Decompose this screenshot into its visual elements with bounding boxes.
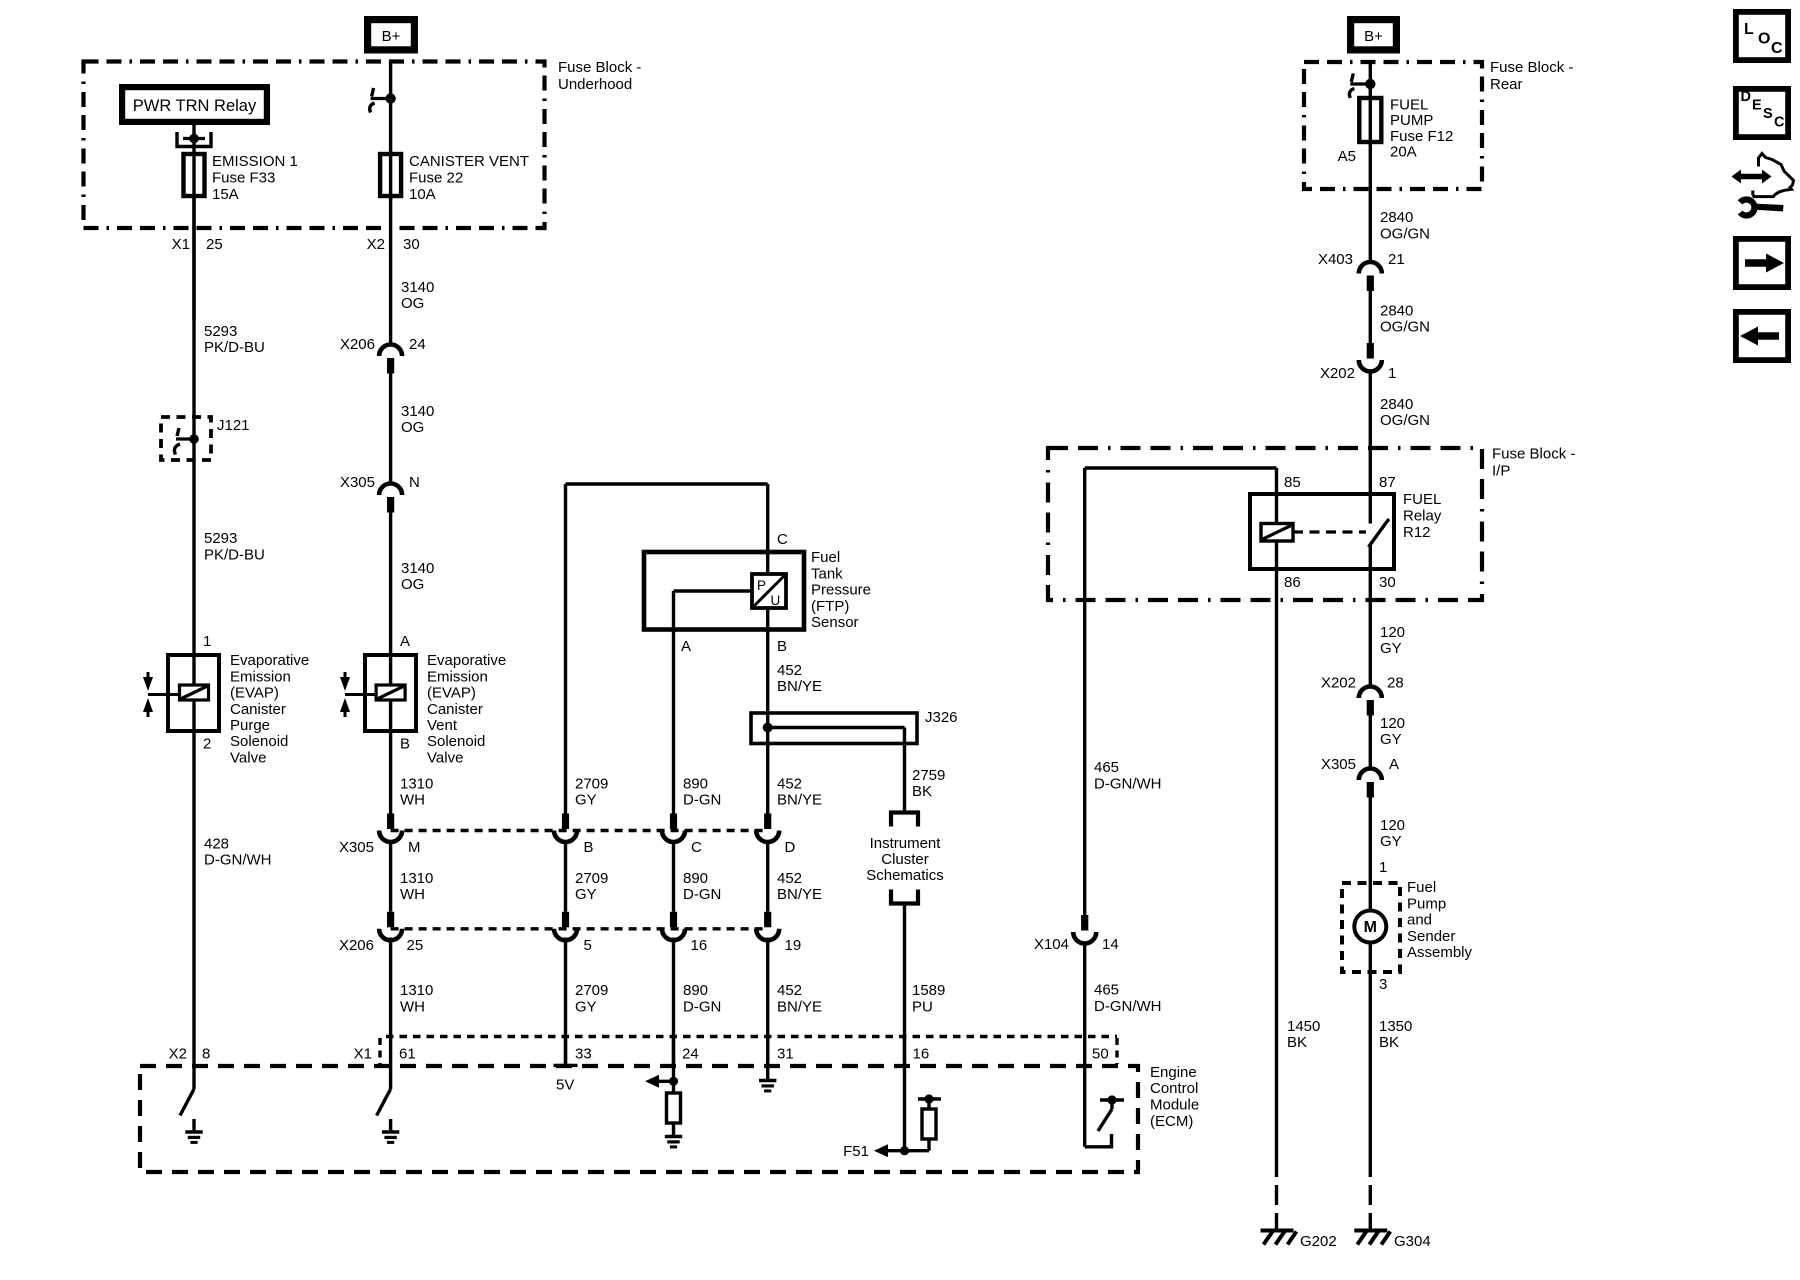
svg-text:Fuse Block -: Fuse Block - xyxy=(1490,59,1573,76)
ground G304 xyxy=(1354,1229,1387,1233)
wire 120 GY (2) xyxy=(1369,716,1372,771)
relay coil xyxy=(1261,524,1293,542)
wire 1350 BK xyxy=(1369,972,1372,1177)
ground G202 xyxy=(1261,1229,1294,1233)
svg-text:D-GN: D-GN xyxy=(683,792,721,809)
fuel tank pressure sensor box xyxy=(644,552,804,630)
wire 2709 GY top run (5V reference) xyxy=(566,482,768,485)
fuse holder clip (canister vent) xyxy=(371,97,391,100)
svg-text:G304: G304 xyxy=(1394,1233,1431,1250)
wire 5293 PK/D-BU upper segment xyxy=(192,196,195,655)
svg-text:BN/YE: BN/YE xyxy=(777,792,822,809)
svg-text:D: D xyxy=(785,839,796,856)
svg-text:Fuel: Fuel xyxy=(1407,879,1436,896)
svg-text:L: L xyxy=(1744,21,1754,38)
svg-text:Schematics: Schematics xyxy=(866,867,944,884)
in-line connector X202 pin 28 xyxy=(1359,687,1382,699)
svg-text:OG/GN: OG/GN xyxy=(1380,226,1430,243)
svg-text:OG/GN: OG/GN xyxy=(1380,319,1430,336)
off-page bracket to instrument cluster (top) xyxy=(891,813,918,827)
svg-text:Control: Control xyxy=(1150,1080,1198,1097)
in-line connector X403 pin 21 xyxy=(1359,262,1382,274)
svg-text:B: B xyxy=(400,736,410,753)
svg-text:U: U xyxy=(771,593,781,608)
svg-text:OG: OG xyxy=(401,295,424,312)
svg-text:PWR TRN Relay: PWR TRN Relay xyxy=(133,97,257,115)
svg-text:Fuse 22: Fuse 22 xyxy=(409,170,463,187)
svg-text:1310: 1310 xyxy=(400,870,433,887)
svg-text:28: 28 xyxy=(1387,675,1404,692)
svg-text:BN/YE: BN/YE xyxy=(777,678,822,695)
svg-text:OG: OG xyxy=(401,419,424,436)
svg-text:452: 452 xyxy=(777,982,802,999)
svg-text:452: 452 xyxy=(777,662,802,679)
svg-text:Tank: Tank xyxy=(811,565,843,582)
svg-text:BK: BK xyxy=(1379,1034,1399,1051)
svg-text:31: 31 xyxy=(777,1046,794,1063)
svg-text:3140: 3140 xyxy=(401,560,434,577)
wire relay 86 to ground G202 (1450 BK) xyxy=(1275,541,1278,1177)
svg-text:A: A xyxy=(1389,756,1399,773)
wire 3140 OG (2) xyxy=(389,374,392,486)
forward arrow button xyxy=(1733,236,1791,290)
svg-text:WH: WH xyxy=(400,792,425,809)
wires from X206 row to ECM xyxy=(389,938,392,1067)
splice J121 dashed box xyxy=(161,417,211,460)
svg-text:M: M xyxy=(1364,919,1377,936)
fuse F33 EMISSION 1 15A xyxy=(184,154,205,196)
svg-text:87: 87 xyxy=(1379,474,1396,491)
connector X206 row pin at x=390.6 xyxy=(387,912,394,928)
svg-text:890: 890 xyxy=(683,870,708,887)
svg-text:D: D xyxy=(1741,89,1751,105)
component view icon (outline with double arrow) xyxy=(1753,154,1794,197)
svg-text:X104: X104 xyxy=(1034,936,1069,953)
svg-text:465: 465 xyxy=(1094,982,1119,999)
svg-text:30: 30 xyxy=(1379,574,1396,591)
svg-text:Assembly: Assembly xyxy=(1407,944,1473,961)
svg-text:Cluster: Cluster xyxy=(881,851,929,868)
svg-text:5V: 5V xyxy=(556,1077,574,1094)
svg-text:GY: GY xyxy=(1380,731,1402,748)
svg-text:X202: X202 xyxy=(1320,365,1355,382)
DESC button xyxy=(1733,86,1791,140)
svg-text:C: C xyxy=(777,531,788,548)
svg-text:2709: 2709 xyxy=(575,982,608,999)
svg-text:24: 24 xyxy=(409,336,426,353)
wire 2840 OG/GN (1) xyxy=(1369,142,1372,264)
wrench icon xyxy=(1752,204,1784,212)
svg-text:GY: GY xyxy=(575,792,597,809)
svg-text:Vent: Vent xyxy=(427,717,458,734)
svg-text:F51: F51 xyxy=(843,1143,869,1160)
svg-text:Solenoid: Solenoid xyxy=(427,733,485,750)
svg-text:X206: X206 xyxy=(339,937,374,954)
LOC button xyxy=(1733,9,1791,63)
svg-text:C: C xyxy=(691,839,702,856)
svg-text:GY: GY xyxy=(575,999,597,1016)
ground lead dashes G202 xyxy=(1275,1185,1278,1231)
fuse block - I/P dashed box xyxy=(1048,448,1482,600)
fuel relay R12 box xyxy=(1250,494,1394,569)
EVAP canister purge solenoid valve xyxy=(168,655,219,731)
connector X206 row pin at x=673.5 xyxy=(670,912,677,928)
svg-text:Purge: Purge xyxy=(230,717,270,734)
svg-text:Fuse F33: Fuse F33 xyxy=(212,170,275,187)
svg-text:PU: PU xyxy=(912,999,933,1016)
svg-text:Canister: Canister xyxy=(427,701,483,718)
svg-text:X1: X1 xyxy=(172,236,190,253)
svg-text:G202: G202 xyxy=(1300,1233,1337,1250)
svg-text:D-GN/WH: D-GN/WH xyxy=(1094,776,1162,793)
svg-text:A: A xyxy=(681,638,691,655)
svg-text:Sensor: Sensor xyxy=(811,614,859,631)
svg-text:A5: A5 xyxy=(1338,148,1356,165)
svg-text:1310: 1310 xyxy=(400,982,433,999)
svg-text:452: 452 xyxy=(777,870,802,887)
svg-text:Valve: Valve xyxy=(427,749,463,766)
wire B+ down to fuse 22 xyxy=(389,61,392,200)
svg-text:X2: X2 xyxy=(367,236,385,253)
svg-text:Pressure: Pressure xyxy=(811,582,871,599)
svg-text:(ECM): (ECM) xyxy=(1150,1113,1193,1130)
ECM pin 16 F51 node with resistor xyxy=(903,1037,906,1151)
svg-text:1589: 1589 xyxy=(912,982,945,999)
wire B+ to fuel pump fuse xyxy=(1369,62,1372,145)
svg-text:3140: 3140 xyxy=(401,279,434,296)
svg-text:452: 452 xyxy=(777,776,802,793)
svg-text:A: A xyxy=(400,633,410,650)
svg-text:2759: 2759 xyxy=(912,767,945,784)
svg-text:428: 428 xyxy=(204,836,229,853)
svg-text:I/P: I/P xyxy=(1492,463,1510,480)
svg-text:X305: X305 xyxy=(339,839,374,856)
svg-text:D-GN/WH: D-GN/WH xyxy=(1094,998,1162,1015)
fuse holder clip (fuel pump) xyxy=(1350,82,1370,85)
svg-text:1310: 1310 xyxy=(400,776,433,793)
svg-text:2709: 2709 xyxy=(575,870,608,887)
in-line connector X305 pin A xyxy=(1359,769,1382,781)
svg-text:16: 16 xyxy=(691,937,708,954)
svg-text:Module: Module xyxy=(1150,1097,1199,1114)
fuse block - underhood (dashed box) xyxy=(84,62,545,229)
svg-text:B+: B+ xyxy=(1364,28,1383,45)
svg-text:CANISTER VENT: CANISTER VENT xyxy=(409,153,529,170)
svg-text:21: 21 xyxy=(1388,251,1405,268)
wire through J326 with junction xyxy=(766,713,769,814)
svg-text:Instrument: Instrument xyxy=(870,835,942,852)
svg-text:B+: B+ xyxy=(382,28,401,45)
svg-text:GY: GY xyxy=(575,886,597,903)
wire 2840 OG/GN (3) xyxy=(1369,370,1372,494)
svg-text:X1: X1 xyxy=(354,1046,372,1063)
svg-text:Underhood: Underhood xyxy=(558,76,632,93)
ground lead dashes G304 xyxy=(1369,1185,1372,1231)
svg-text:GY: GY xyxy=(1380,640,1402,657)
svg-text:33: 33 xyxy=(575,1046,592,1063)
svg-text:S: S xyxy=(1763,106,1773,122)
ECM internal switch to ground (pin X2-8) xyxy=(192,1066,195,1089)
svg-text:WH: WH xyxy=(400,886,425,903)
svg-text:1: 1 xyxy=(203,633,211,650)
ECM internal driver switch (pin 50) xyxy=(1083,1037,1086,1147)
svg-text:3: 3 xyxy=(1379,976,1387,993)
svg-text:61: 61 xyxy=(399,1046,416,1063)
connector X305 row pin at x=767.7 xyxy=(764,814,771,830)
in-line connector X206 pin 24 xyxy=(379,345,402,357)
ECM ground (pin 31) xyxy=(766,1037,769,1081)
svg-text:5: 5 xyxy=(584,937,592,954)
svg-text:R12: R12 xyxy=(1403,524,1431,541)
wires between X305 and X206 rows xyxy=(389,841,392,912)
fuse F12 FUEL PUMP 20A xyxy=(1359,98,1381,142)
svg-text:M: M xyxy=(408,839,421,856)
svg-text:N: N xyxy=(409,474,420,491)
wire to FTP sensor pin C xyxy=(766,484,769,574)
wire fuse 22 to X2 pin 30 xyxy=(389,196,392,346)
svg-text:FUEL: FUEL xyxy=(1403,491,1441,508)
svg-text:X202: X202 xyxy=(1321,675,1356,692)
fuse holder bracket (EMISSION 1) xyxy=(177,132,211,147)
svg-text:14: 14 xyxy=(1102,936,1119,953)
svg-text:Evaporative: Evaporative xyxy=(230,652,309,669)
svg-text:1: 1 xyxy=(1388,365,1396,382)
svg-text:P: P xyxy=(757,578,766,593)
ECM internal switch to ground (pin 61) xyxy=(389,1066,392,1089)
connector X305 row pin at x=673.5 xyxy=(670,814,677,830)
svg-text:Emission: Emission xyxy=(427,668,488,685)
svg-text:Valve: Valve xyxy=(230,749,266,766)
wire relay 85 feed 465 D-GN/WH xyxy=(1083,600,1086,915)
svg-text:86: 86 xyxy=(1284,574,1301,591)
in-line connector X305 row dashed link xyxy=(391,829,768,832)
svg-text:20A: 20A xyxy=(1390,144,1417,161)
svg-text:2840: 2840 xyxy=(1380,209,1413,226)
svg-text:EMISSION 1: EMISSION 1 xyxy=(212,153,298,170)
svg-text:1350: 1350 xyxy=(1379,1018,1412,1035)
wire 120 GY (1) xyxy=(1369,600,1372,688)
ECM connector X1 dotted strip xyxy=(386,1035,1117,1039)
FTP sensor P/U transducer symbol xyxy=(752,574,786,608)
svg-text:Rear: Rear xyxy=(1490,76,1523,93)
fuel pump and sender assembly dashed box xyxy=(1342,883,1400,972)
fuse 22 CANISTER VENT 10A xyxy=(380,154,401,196)
wire 120 GY (3) xyxy=(1369,798,1372,884)
svg-text:25: 25 xyxy=(407,937,424,954)
engine control module ECM dashed box xyxy=(140,1066,1138,1172)
svg-text:C: C xyxy=(1771,40,1783,57)
svg-text:J326: J326 xyxy=(925,709,958,726)
wire 1310 WH (1) xyxy=(389,731,392,814)
relay switch arm xyxy=(1369,494,1372,524)
svg-text:B: B xyxy=(777,638,787,655)
svg-text:465: 465 xyxy=(1094,759,1119,776)
ECM pin 24 sense arrow and pull resistor xyxy=(672,1037,675,1094)
svg-text:D-GN: D-GN xyxy=(683,886,721,903)
svg-text:BN/YE: BN/YE xyxy=(777,999,822,1016)
svg-text:Emission: Emission xyxy=(230,668,291,685)
EVAP canister vent solenoid valve xyxy=(365,655,416,731)
svg-text:X2: X2 xyxy=(169,1046,187,1063)
svg-text:Fuse Block -: Fuse Block - xyxy=(558,59,641,76)
wire 1589 PU xyxy=(903,904,906,1067)
svg-text:GY: GY xyxy=(1380,833,1402,850)
relay dashed actuator link xyxy=(1293,530,1366,533)
svg-text:120: 120 xyxy=(1380,817,1405,834)
svg-text:BK: BK xyxy=(912,783,932,800)
wire 2840 OG/GN (2) xyxy=(1369,291,1372,343)
svg-text:X305: X305 xyxy=(1321,756,1356,773)
svg-text:Relay: Relay xyxy=(1403,508,1442,525)
svg-text:Solenoid: Solenoid xyxy=(230,733,288,750)
svg-text:WH: WH xyxy=(400,999,425,1016)
svg-text:O: O xyxy=(1758,31,1770,48)
svg-text:PK/D-BU: PK/D-BU xyxy=(204,339,265,356)
svg-text:(EVAP): (EVAP) xyxy=(230,685,279,702)
back arrow button xyxy=(1733,309,1791,363)
connector X206 row pin at x=565.5 xyxy=(562,912,569,928)
svg-text:2840: 2840 xyxy=(1380,396,1413,413)
svg-text:1450: 1450 xyxy=(1287,1018,1320,1035)
svg-text:Sender: Sender xyxy=(1407,928,1455,945)
svg-text:30: 30 xyxy=(403,236,420,253)
svg-text:D-GN/WH: D-GN/WH xyxy=(204,852,272,869)
svg-text:and: and xyxy=(1407,912,1432,929)
wire FTP pin B xyxy=(766,608,769,713)
svg-text:PUMP: PUMP xyxy=(1390,112,1433,129)
wire 428 D-GN/WH xyxy=(192,731,195,1066)
svg-text:19: 19 xyxy=(785,937,802,954)
svg-text:2: 2 xyxy=(203,736,211,753)
wire 3140 OG (3) xyxy=(389,513,392,656)
svg-text:24: 24 xyxy=(682,1046,699,1063)
svg-text:E: E xyxy=(1752,98,1762,114)
svg-text:2709: 2709 xyxy=(575,776,608,793)
svg-text:X305: X305 xyxy=(340,474,375,491)
svg-text:890: 890 xyxy=(683,776,708,793)
svg-text:3140: 3140 xyxy=(401,403,434,420)
PWR TRN Relay box xyxy=(119,84,270,125)
svg-text:Engine: Engine xyxy=(1150,1064,1197,1081)
svg-text:890: 890 xyxy=(683,982,708,999)
svg-text:25: 25 xyxy=(206,236,223,253)
fuel pump motor xyxy=(1369,883,1372,911)
wire PWR TRN Relay to fuse F33 xyxy=(192,125,195,200)
in-line connector X202 pin 1 xyxy=(1367,343,1374,359)
wire FTP pin A xyxy=(674,589,753,592)
svg-text:X403: X403 xyxy=(1318,251,1353,268)
svg-text:2840: 2840 xyxy=(1380,303,1413,320)
svg-text:Fuel: Fuel xyxy=(811,549,840,566)
svg-text:85: 85 xyxy=(1284,474,1301,491)
svg-text:OG: OG xyxy=(401,576,424,593)
connector X206 row pin at x=767.7 xyxy=(764,912,771,928)
svg-text:8: 8 xyxy=(202,1046,210,1063)
svg-text:Fuse F12: Fuse F12 xyxy=(1390,128,1453,145)
wire 465 D-GN/WH (2) xyxy=(1083,942,1086,1037)
svg-text:X206: X206 xyxy=(340,336,375,353)
fuse block - rear dashed box xyxy=(1304,62,1482,189)
ECM 5V supply (pin 33) xyxy=(564,1037,567,1066)
svg-text:120: 120 xyxy=(1380,715,1405,732)
svg-text:BK: BK xyxy=(1287,1034,1307,1051)
splice pack J326 box xyxy=(751,713,917,744)
wire from relay pin 85 to column xyxy=(1085,466,1277,469)
svg-text:15A: 15A xyxy=(212,186,239,203)
svg-text:B: B xyxy=(584,839,594,856)
B+ feed terminal (left) xyxy=(364,16,418,54)
svg-text:PK/D-BU: PK/D-BU xyxy=(204,547,265,564)
B+ feed terminal (right) xyxy=(1347,16,1400,54)
svg-text:5293: 5293 xyxy=(204,323,237,340)
svg-text:J121: J121 xyxy=(217,417,250,434)
svg-text:(FTP): (FTP) xyxy=(811,598,849,615)
svg-text:50: 50 xyxy=(1092,1046,1109,1063)
svg-text:Evaporative: Evaporative xyxy=(427,652,506,669)
svg-text:120: 120 xyxy=(1380,624,1405,641)
svg-text:1: 1 xyxy=(1379,859,1387,876)
wire fuse F33 to X1 pin 25 xyxy=(192,196,195,320)
svg-text:10A: 10A xyxy=(409,186,436,203)
svg-text:16: 16 xyxy=(913,1046,930,1063)
in-line connector X206 row dashed link xyxy=(391,927,768,930)
svg-text:Fuse Block -: Fuse Block - xyxy=(1492,446,1575,463)
in-line connector X305 pin N xyxy=(379,484,402,495)
svg-text:Pump: Pump xyxy=(1407,895,1446,912)
svg-text:(EVAP): (EVAP) xyxy=(427,685,476,702)
svg-text:BN/YE: BN/YE xyxy=(777,886,822,903)
svg-text:5293: 5293 xyxy=(204,530,237,547)
svg-text:OG/GN: OG/GN xyxy=(1380,412,1430,429)
J121 splice symbol xyxy=(176,437,194,440)
off-page bracket from instrument cluster (bottom) xyxy=(891,890,918,904)
svg-text:Canister: Canister xyxy=(230,701,286,718)
svg-text:D-GN: D-GN xyxy=(683,999,721,1016)
svg-text:FUEL: FUEL xyxy=(1390,97,1428,114)
in-line connector X104 pin 14 xyxy=(1081,915,1088,931)
svg-text:C: C xyxy=(1774,115,1785,131)
connector X305 row pin at x=565.5 xyxy=(562,814,569,830)
connector X305 row pin at x=390.6 xyxy=(387,814,394,830)
